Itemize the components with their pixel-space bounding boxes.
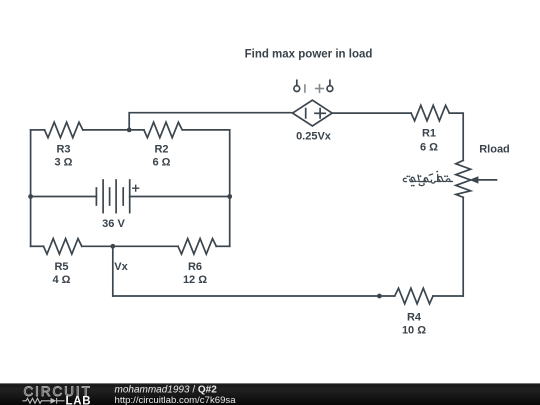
- dependent source U1 diamond 0.25Vx: [293, 100, 333, 126]
- svg-text:Vx: Vx: [114, 261, 128, 273]
- potentiometer wiper arrow: [469, 176, 496, 183]
- svg-text:mohammad1993 / Q#2: mohammad1993 / Q#2: [115, 384, 218, 395]
- resistor R4: [395, 288, 433, 304]
- wire from R1 to right corner: [449, 113, 463, 160]
- wire bottom row left segment: [31, 245, 44, 247]
- svg-text:R1: R1: [422, 128, 436, 140]
- svg-text:4 Ω: 4 Ω: [53, 274, 71, 286]
- svg-text:Rload: Rload: [479, 143, 510, 155]
- wire middle row left segment: [31, 196, 97, 198]
- svg-text:0.25Vx: 0.25Vx: [296, 131, 332, 143]
- svg-text:R5: R5: [54, 261, 68, 273]
- svg-text:Find max power in load: Find max power in load: [245, 49, 373, 61]
- wire top row between R3 and node: [83, 129, 144, 131]
- svg-text:R3: R3: [56, 144, 70, 156]
- svg-text:12 Ω: 12 Ω: [183, 274, 207, 286]
- svg-text:LAB: LAB: [66, 396, 92, 405]
- svg-text:3 Ω: 3 Ω: [55, 157, 73, 169]
- battery V1 36V: [96, 180, 129, 213]
- wire right vertical of left loop: [229, 130, 231, 246]
- svg-text:R4: R4: [407, 311, 422, 323]
- svg-text:6 Ω: 6 Ω: [420, 141, 438, 153]
- sense polarity plus mark: [316, 85, 324, 93]
- svg-text:6 Ω: 6 Ω: [153, 157, 171, 169]
- sense polarity minus mark: [304, 85, 306, 92]
- wire bottom right segment: [433, 295, 463, 297]
- wire from source to R1: [332, 112, 411, 114]
- resistor R3: [45, 122, 83, 138]
- wire top row right segment: [183, 129, 230, 131]
- footer bar: [0, 383, 540, 405]
- svg-text:R6: R6: [188, 261, 202, 273]
- wire bottom row between R5 and node Vx: [82, 245, 178, 247]
- wire left vertical of left loop: [30, 130, 32, 246]
- resistor R5: [44, 239, 82, 255]
- wire Vx riser vertical: [112, 246, 114, 296]
- wire middle row right segment: [130, 196, 230, 198]
- wire right vertical below Rload: [462, 197, 464, 296]
- sense terminal circle left: [294, 80, 300, 91]
- junction node bottom right: [377, 294, 382, 299]
- resistor R1: [411, 105, 449, 121]
- dependent source minus mark inside: [305, 109, 307, 118]
- wire bottom row right segment: [216, 245, 230, 247]
- svg-text:http://circuitlab.com/c7k69sa: http://circuitlab.com/c7k69sa: [115, 395, 237, 405]
- wire top row left segment: [31, 129, 45, 131]
- potentiometer Rload zigzag: [456, 160, 471, 197]
- sense terminal circle right: [327, 80, 333, 91]
- wire bottom long segment to Vx riser: [113, 295, 395, 297]
- junction node at top row: [127, 127, 132, 132]
- wire riser from node to dependent source row: [129, 113, 292, 130]
- footer logo resistor zigzag and diode: [23, 398, 65, 404]
- resistor R6: [178, 239, 216, 255]
- dependent source plus mark inside: [315, 109, 325, 118]
- svg-text:10 Ω: 10 Ω: [402, 324, 426, 336]
- battery plus polarity mark: [133, 185, 139, 191]
- svg-text:36 V: 36 V: [102, 218, 125, 230]
- junction node left middle: [28, 194, 33, 199]
- arabic annotation variable resistance: [403, 174, 452, 186]
- junction node right middle: [227, 194, 232, 199]
- svg-text:R2: R2: [154, 144, 168, 156]
- junction node Vx: [110, 244, 115, 249]
- resistor R2: [144, 122, 182, 138]
